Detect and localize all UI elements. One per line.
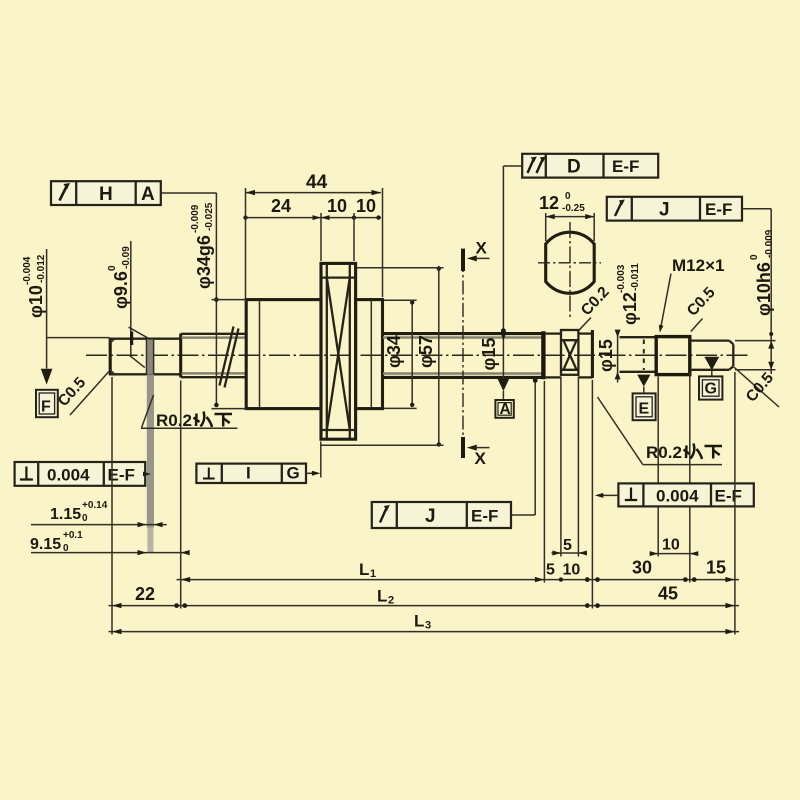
svg-text:0.004: 0.004 <box>47 466 90 485</box>
feature control frame [runout J E-F] top right <box>607 197 776 374</box>
svg-text:-0.003: -0.003 <box>616 264 627 293</box>
C0.5 chamfer label left end <box>55 372 109 416</box>
C0.2 chamfer label <box>578 284 613 331</box>
φ12 section <box>620 337 657 372</box>
svg-text:10: 10 <box>356 196 376 216</box>
φ9.6 0/-0.09 rotated label <box>107 246 132 309</box>
shaft left journal φ10 <box>109 338 181 375</box>
svg-text:A: A <box>500 401 511 418</box>
φ57 rotated label and dimension <box>416 335 436 368</box>
svg-text:D: D <box>567 157 581 178</box>
φ10 -0.004/-0.012 rotated label <box>22 254 47 318</box>
svg-text:X: X <box>476 239 488 258</box>
svg-text:-0.012: -0.012 <box>36 254 47 283</box>
dimension 10 (M12 length) <box>650 537 699 557</box>
svg-text:R0.2: R0.2 <box>646 443 682 462</box>
φ10h6 end section <box>690 341 734 370</box>
extension lines for 44/24/10/10 <box>246 188 383 302</box>
φ34 rotated label and dimension <box>384 335 404 368</box>
thick end face of screw section <box>541 331 545 379</box>
R0.2以下 label right <box>598 397 723 465</box>
bottom extension lines <box>112 372 735 635</box>
svg-text:-0.025: -0.025 <box>204 202 215 231</box>
svg-text:E-F: E-F <box>612 157 639 176</box>
svg-text:J: J <box>659 200 670 221</box>
screw thread section left (with gray root lines) <box>181 334 247 377</box>
φ15 rotated label left with dim line, D-frame leader and datum A <box>479 338 499 371</box>
feature control frame [runout J E-F] bottom <box>372 378 538 528</box>
svg-text:H: H <box>99 184 113 205</box>
svg-text:0: 0 <box>565 191 571 202</box>
dimension 44 <box>246 172 382 195</box>
svg-text:φ57: φ57 <box>416 335 436 368</box>
φ10h6 0/-0.009 rotated label <box>749 229 775 316</box>
feature control frame [perp 0.004 E-F] left <box>15 462 151 486</box>
svg-text:22: 22 <box>135 584 155 604</box>
svg-text:E-F: E-F <box>715 487 742 506</box>
svg-text:45: 45 <box>658 584 678 604</box>
step face to φ12 <box>591 330 594 378</box>
dimensions 24 10 10 <box>243 196 381 220</box>
chain dimensions 22 L2 45 <box>109 584 740 609</box>
feature control frame [runout H A] <box>51 181 216 205</box>
chain dimension L3 <box>109 612 740 635</box>
svg-text:F: F <box>41 399 51 416</box>
short land after face <box>546 334 561 378</box>
svg-text:3: 3 <box>425 620 431 632</box>
dimension 1.15 +0.14/0 <box>31 500 167 527</box>
C0.5 chamfer label right end <box>734 367 779 407</box>
datum G under φ10h6 <box>699 357 722 400</box>
svg-text:I: I <box>246 464 251 483</box>
svg-text:φ10: φ10 <box>26 285 46 318</box>
thread runout diagonals <box>220 327 239 388</box>
svg-text:E: E <box>639 401 650 418</box>
svg-text:L: L <box>359 560 369 579</box>
svg-text:J: J <box>425 506 436 527</box>
φ10 dimension line and datum F <box>36 249 110 417</box>
dimension 9.15 +0.1/0 <box>30 530 190 555</box>
svg-text:9.15: 9.15 <box>30 536 61 553</box>
svg-text:2: 2 <box>388 595 394 607</box>
svg-text:G: G <box>705 381 717 398</box>
R0.2以下 label left <box>141 395 238 430</box>
C0.5 chamfer label middle <box>684 284 719 332</box>
svg-text:-0.009: -0.009 <box>764 229 775 258</box>
svg-text:φ12: φ12 <box>620 292 640 325</box>
svg-text:1.15: 1.15 <box>50 506 81 523</box>
dimension 5 (circlip groove width) <box>552 537 588 556</box>
feature control frame [perp 0.004 E-F] right <box>595 483 754 506</box>
M12x1 thread box <box>656 337 690 375</box>
svg-text:φ10h6: φ10h6 <box>754 262 774 316</box>
screw shaft φ15 main section with gray root lines <box>383 334 544 378</box>
svg-text:φ15: φ15 <box>479 338 499 371</box>
svg-text:30: 30 <box>632 558 652 578</box>
φ34g6 dimension line with H-A frame elbow <box>212 193 248 409</box>
svg-text:10: 10 <box>662 537 680 554</box>
svg-text:+0.1: +0.1 <box>63 530 83 541</box>
svg-text:L: L <box>414 612 424 631</box>
φ15 rotated label right with dim line <box>596 339 616 372</box>
datum E under φ12 <box>633 375 656 421</box>
svg-text:φ34: φ34 <box>384 335 404 368</box>
svg-text:A: A <box>141 184 155 205</box>
svg-text:-0.25: -0.25 <box>562 203 585 214</box>
circlip box with X cross <box>561 330 578 375</box>
D view: shaft end circle with two flats <box>538 222 601 319</box>
svg-text:φ34g6: φ34g6 <box>194 235 214 289</box>
φ34g6 -0.009/-0.025 rotated label <box>190 202 215 289</box>
svg-text:5: 5 <box>546 562 555 579</box>
circlip groove on left journal (gray) <box>147 339 155 553</box>
svg-text:+0.14: +0.14 <box>82 500 108 511</box>
land after circlip box <box>578 334 592 378</box>
svg-text:-0.004: -0.004 <box>22 256 33 285</box>
nut flange (φ57) <box>321 263 356 439</box>
svg-text:0: 0 <box>82 513 88 524</box>
svg-text:1: 1 <box>370 568 376 580</box>
svg-text:-0.009: -0.009 <box>190 204 201 233</box>
svg-text:44: 44 <box>306 172 328 193</box>
svg-text:E-F: E-F <box>471 507 498 526</box>
nut journal 1 (φ34g6) <box>246 300 321 409</box>
svg-text:X: X <box>475 449 487 468</box>
svg-text:10: 10 <box>563 562 581 579</box>
left shoulder face <box>179 334 182 378</box>
svg-text:E-F: E-F <box>705 200 732 219</box>
svg-text:5: 5 <box>563 537 572 554</box>
svg-text:24: 24 <box>271 196 291 216</box>
M12×1 label with leader <box>659 256 725 333</box>
feature control frame [perp I G] <box>196 442 320 484</box>
svg-text:-0.011: -0.011 <box>630 263 641 291</box>
svg-text:0.004: 0.004 <box>656 487 699 506</box>
nut journal 2 (φ34) <box>356 300 383 409</box>
chain dimensions L1 5 10 30 15 <box>177 558 740 583</box>
centerline of shaft <box>86 354 750 356</box>
svg-text:R0.2: R0.2 <box>156 411 192 430</box>
svg-text:10: 10 <box>327 196 347 216</box>
X-X section line <box>463 239 490 469</box>
feature control frame [runout D E-F] top <box>503 154 658 178</box>
svg-text:15: 15 <box>706 558 726 578</box>
φ9.6 leader to groove <box>129 241 151 368</box>
svg-text:M12×1: M12×1 <box>672 256 724 275</box>
svg-text:12: 12 <box>539 193 559 213</box>
svg-text:G: G <box>287 464 300 483</box>
dimension 12 0/-0.25 over D view <box>539 191 594 241</box>
svg-text:0: 0 <box>107 265 118 271</box>
φ12 -0.003/-0.011 rotated label <box>616 263 641 325</box>
svg-text:L: L <box>377 587 387 606</box>
svg-text:0: 0 <box>749 254 760 260</box>
svg-text:φ9.6: φ9.6 <box>111 271 131 309</box>
svg-text:φ15: φ15 <box>596 339 616 372</box>
